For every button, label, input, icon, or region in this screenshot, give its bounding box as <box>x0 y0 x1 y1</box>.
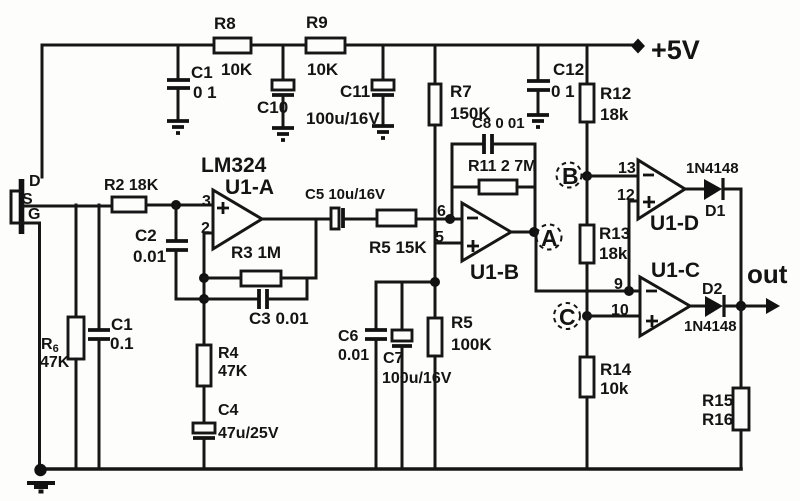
pin 9 label <box>614 276 623 293</box>
resistor R9 10K <box>306 13 345 79</box>
svg-text:R16: R16 <box>702 410 733 429</box>
wire: R7 column down through pin5 tee to C6/C7 node <box>434 125 437 318</box>
pin 12 label <box>617 187 635 204</box>
svg-text:0 1: 0 1 <box>193 83 217 102</box>
resistor R6 47K <box>40 205 84 469</box>
pin 13 label <box>618 160 636 177</box>
capacitor C10 (electrolytic) <box>257 45 294 127</box>
svg-text:47K: 47K <box>40 354 70 371</box>
resistor R4 47K <box>197 345 248 386</box>
svg-text:C12: C12 <box>553 60 584 79</box>
pin 10 label <box>611 302 629 319</box>
svg-text:100u/16V: 100u/16V <box>306 109 380 128</box>
resistor R11 2 7M (feedback) <box>452 158 536 194</box>
pin 3 label <box>202 193 211 210</box>
capacitor C12 0 1 <box>527 45 584 114</box>
svg-text:13: 13 <box>618 160 636 177</box>
svg-text:10k: 10k <box>600 379 629 398</box>
capacitor C4 47u/25V (electrolytic) <box>193 402 279 469</box>
svg-text:R12: R12 <box>600 84 631 103</box>
svg-text:G: G <box>28 206 40 223</box>
node: pin9/pin12 junction <box>624 286 634 296</box>
svg-text:0 1: 0 1 <box>551 82 575 101</box>
node: feedback junction lower <box>199 294 209 304</box>
svg-text:R3 1M: R3 1M <box>231 243 281 262</box>
+5V rail wire <box>42 44 632 47</box>
svg-text:+5V: +5V <box>651 35 700 65</box>
capacitor C8 0 01 (feedback) <box>452 115 535 219</box>
diode D1 1N4148 <box>686 160 739 220</box>
svg-text:R5 15K: R5 15K <box>369 238 427 257</box>
svg-text:D2: D2 <box>702 281 723 298</box>
wire: node A down and across to pin 9 <box>536 232 640 291</box>
resistor R5 100K <box>428 313 492 469</box>
svg-text:C6: C6 <box>338 328 359 345</box>
svg-text:U1-D: U1-D <box>650 212 699 235</box>
ground rail wire (bottom) <box>41 467 741 471</box>
svg-text:LM324: LM324 <box>201 154 267 177</box>
capacitor C3 0.01 <box>204 278 309 328</box>
wire: C6/C7 branch row <box>376 281 435 284</box>
node A <box>529 225 562 252</box>
wire: U1-D output <box>685 188 705 191</box>
node: feedback junction upper <box>199 273 209 283</box>
capacitor C1 (bottom, 0.1) <box>88 205 134 469</box>
node C <box>554 303 592 330</box>
op-amp U1-A (LM324) <box>201 154 274 249</box>
wire: source signal row <box>24 205 213 206</box>
svg-text:47K: 47K <box>218 363 248 380</box>
+5V terminal <box>631 35 700 65</box>
svg-text:R8: R8 <box>214 14 236 33</box>
wire: U1-A output row <box>262 218 331 221</box>
svg-text:out: out <box>747 259 788 289</box>
wire: D1 to right riser down to out node <box>724 189 741 306</box>
node B <box>557 163 593 190</box>
wire: U1-C output <box>690 305 706 308</box>
capacitor C6 0.01 <box>338 282 387 469</box>
pin 5 label <box>435 229 444 246</box>
resistor R7 150K <box>429 45 491 125</box>
resistor R13 18k <box>580 176 630 316</box>
pin 6 label <box>437 203 446 220</box>
resistor R2 18K <box>104 177 159 212</box>
ground (C10) <box>272 128 294 140</box>
svg-text:R9: R9 <box>306 13 328 32</box>
node: U1-B pin6 junction <box>445 214 455 224</box>
ground (bottom left) <box>27 464 55 492</box>
capacitor C5 10u/16V (electrolytic) <box>305 186 385 229</box>
svg-text:C1: C1 <box>111 315 133 334</box>
svg-text:18k: 18k <box>599 244 628 263</box>
svg-text:R6: R6 <box>41 336 59 355</box>
svg-text:1N4148: 1N4148 <box>684 318 737 335</box>
svg-text:C8 0 01: C8 0 01 <box>472 115 525 132</box>
wire: node C to pin 10 <box>587 315 640 318</box>
diode D2 1N4148 <box>684 281 737 335</box>
svg-text:B: B <box>562 163 579 189</box>
svg-text:C7: C7 <box>383 350 404 367</box>
node: input junction <box>171 200 181 210</box>
resistor R5 15K <box>369 210 462 257</box>
svg-text:C11: C11 <box>340 82 370 101</box>
svg-text:10: 10 <box>611 302 629 319</box>
pin 2 label <box>201 220 210 237</box>
svg-text:C3 0.01: C3 0.01 <box>249 309 309 328</box>
svg-text:U1-A: U1-A <box>225 176 274 199</box>
wire: node B to pin 13 <box>587 175 638 178</box>
svg-text:10K: 10K <box>307 60 339 79</box>
ground (C1 top) <box>167 121 189 133</box>
resistor R15 R16 <box>702 306 749 469</box>
svg-text:U1-C: U1-C <box>651 259 700 282</box>
svg-text:C4: C4 <box>218 402 239 419</box>
resistor R12 18k <box>580 45 631 124</box>
svg-text:C2: C2 <box>135 226 157 245</box>
ground (C11) <box>372 126 394 138</box>
wire: pin2 stub down to feedback nodes and R4 <box>204 233 213 345</box>
svg-text:A: A <box>541 225 558 251</box>
svg-text:0.1: 0.1 <box>110 334 134 353</box>
svg-text:C1: C1 <box>191 63 213 82</box>
svg-text:1N4148: 1N4148 <box>686 160 739 177</box>
svg-text:R2 18K: R2 18K <box>104 177 159 194</box>
svg-text:0.01: 0.01 <box>133 247 166 266</box>
svg-text:100K: 100K <box>451 335 492 354</box>
op-amp U1-C <box>640 259 700 336</box>
resistor R8 10K <box>214 14 253 79</box>
microphone MIC (D/S/G) <box>11 173 41 234</box>
svg-text:R15: R15 <box>702 391 733 410</box>
capacitor C7 100u/16V (electrolytic) <box>382 282 452 469</box>
ground (C12) <box>527 115 549 127</box>
op-amp U1-B <box>462 203 519 284</box>
svg-text:9: 9 <box>614 276 623 293</box>
svg-text:R4: R4 <box>218 345 239 362</box>
svg-text:D1: D1 <box>705 203 726 220</box>
svg-text:C5 10u/16V: C5 10u/16V <box>305 186 385 203</box>
svg-text:C10: C10 <box>257 98 288 117</box>
wire: R12 to node B <box>586 122 589 176</box>
node: out junction <box>736 301 746 311</box>
svg-text:D: D <box>29 173 41 190</box>
svg-text:6: 6 <box>437 203 446 220</box>
svg-text:R13: R13 <box>599 224 630 243</box>
svg-text:U1-B: U1-B <box>470 261 519 284</box>
wire: pin 5 row <box>435 242 462 245</box>
op-amp U1-D <box>638 160 699 235</box>
svg-text:12: 12 <box>617 187 635 204</box>
capacitor C2 0.01 <box>133 205 203 299</box>
wire: U1-B output to node A <box>511 231 534 234</box>
svg-text:R14: R14 <box>600 360 632 379</box>
wire: D2 to out node <box>725 305 741 308</box>
wire: mic gate down to ground rail <box>38 223 41 469</box>
resistor R3 1M <box>204 243 316 286</box>
svg-text:18k: 18k <box>600 105 629 124</box>
svg-text:3: 3 <box>202 193 211 210</box>
svg-text:10K: 10K <box>221 60 253 79</box>
svg-text:0.01: 0.01 <box>338 347 369 364</box>
node: C6/C7 junction <box>430 277 440 287</box>
capacitor C11 100u/16V (electrolytic) <box>306 45 394 128</box>
svg-text:R5: R5 <box>451 313 473 332</box>
out arrow <box>746 259 788 314</box>
svg-text:R11 2 7M: R11 2 7M <box>468 158 536 175</box>
wire: left rail down to mic drain <box>41 45 44 177</box>
svg-text:47u/25V: 47u/25V <box>218 425 279 442</box>
wire: riser pin9 node to pin 12 <box>629 201 638 291</box>
wire: R4 to C4 <box>203 386 206 423</box>
svg-text:C: C <box>559 304 576 330</box>
capacitor C1 (top, 0 1) <box>167 45 217 120</box>
svg-text:R7: R7 <box>450 82 472 101</box>
wire: R3 row riser to output row <box>315 220 318 278</box>
resistor R14 10k <box>580 316 632 469</box>
svg-text:100u/16V: 100u/16V <box>382 370 452 387</box>
wire: feedback right riser to node A <box>534 144 537 232</box>
